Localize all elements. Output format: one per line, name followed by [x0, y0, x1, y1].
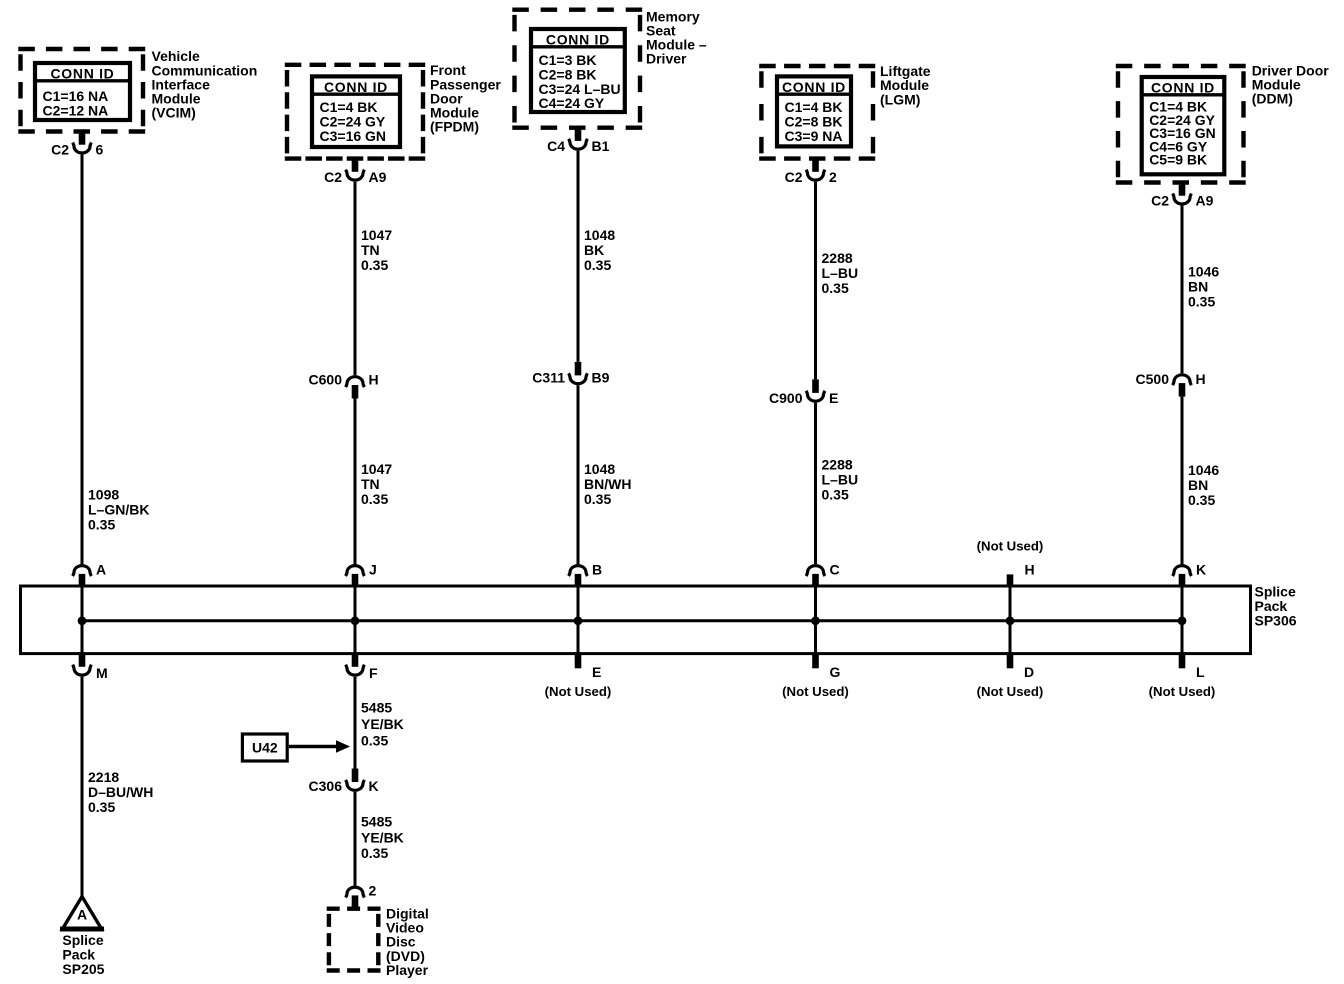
svg-text:C3=9 NA: C3=9 NA	[785, 128, 843, 144]
splice pack SP306: outline box	[21, 586, 1251, 654]
SP306 terminal J: socket arc	[346, 566, 365, 576]
SP306 terminal F: stub	[352, 653, 359, 667]
wire 2288 L-BU from LGM C2-2 to C900	[814, 182, 817, 380]
in-line connector C900 pin E: male terminal	[812, 379, 819, 393]
svg-text:C2=12 NA: C2=12 NA	[43, 102, 109, 118]
SP306 terminal G (not used): stub	[812, 653, 819, 669]
connector C2 pin A9: labels	[1151, 193, 1214, 209]
wire label 1098 L-GN/BK 0.35	[88, 487, 149, 533]
SP306 internal wire A/M	[81, 586, 84, 654]
DVD player pin 2: stub	[352, 895, 359, 910]
wire label 1046 BN 0.35 (lower)	[1188, 462, 1219, 508]
in-line connector C900 pin E: socket arc	[806, 391, 825, 401]
svg-text:0.35: 0.35	[584, 257, 611, 273]
module VCIM: connector size rows	[43, 88, 109, 119]
connector C4 pin B1: terminal stub	[575, 128, 582, 141]
connector C2 pin 2: terminal stub	[812, 159, 819, 172]
SP306 terminal M: socket arc	[73, 665, 92, 675]
wire 5485 YE/BK from C306 to DVD player pin 2	[354, 792, 357, 886]
connector C4 pin B1: socket arc	[569, 139, 588, 149]
svg-text:0.35: 0.35	[584, 491, 611, 507]
svg-text:1047: 1047	[361, 227, 392, 243]
SP306 bus junction at C/G	[811, 616, 820, 625]
wire 2218 D-BU/WH from SP306 terminal M to splice pack SP205	[81, 677, 84, 897]
svg-text:D: D	[1024, 664, 1034, 680]
SP306 terminal C: socket arc	[806, 566, 825, 576]
connector C2 pin 2: labels	[785, 169, 837, 185]
SP306 terminal J: stub	[352, 574, 359, 587]
SP306 bus junction at J/F	[351, 616, 360, 625]
svg-text:CONN ID: CONN ID	[546, 32, 610, 48]
wire label 1048 BK 0.35	[584, 227, 615, 273]
wire label 1048 BN/WH 0.35	[584, 461, 631, 507]
wire 1047 TN from C600 to SP306 terminal J	[354, 399, 357, 565]
in-line connector C600 pin H: labels	[309, 371, 379, 387]
svg-text:5485: 5485	[361, 814, 392, 830]
svg-text:H: H	[1025, 562, 1035, 578]
SP306 bus junction at B/E	[574, 616, 583, 625]
svg-text:0.35: 0.35	[361, 845, 388, 861]
svg-text:E: E	[592, 664, 601, 680]
svg-text:J: J	[369, 562, 377, 578]
in-line connector C311 pin B9: male terminal	[575, 362, 582, 376]
svg-text:Player: Player	[386, 962, 429, 978]
svg-text:Driver: Driver	[646, 51, 687, 67]
svg-text:(Not Used): (Not Used)	[782, 684, 849, 699]
SP306 internal wire H/D	[1009, 586, 1012, 654]
SP306 bus junction at A/M	[78, 616, 87, 625]
in-line connector C500 pin H: male terminal	[1179, 383, 1186, 397]
module FPDM: connector size rows	[320, 99, 387, 144]
in-line connector C311 pin B9: labels	[532, 370, 609, 386]
svg-text:CONN ID: CONN ID	[782, 79, 846, 95]
svg-text:(Not Used): (Not Used)	[977, 684, 1044, 699]
svg-text:C4=24 GY: C4=24 GY	[539, 95, 605, 111]
module VCIM: dashed outline	[18, 49, 145, 132]
svg-text:(Not Used): (Not Used)	[545, 684, 612, 699]
wire label 2288 L-BU 0.35 (upper)	[822, 250, 859, 296]
SP306 terminal C: stub	[812, 574, 819, 587]
svg-text:1047: 1047	[361, 461, 392, 477]
svg-text:BK: BK	[584, 242, 604, 258]
svg-text:0.35: 0.35	[361, 491, 388, 507]
connector C2 pin 2: socket arc	[806, 170, 825, 180]
svg-text:M: M	[96, 665, 108, 681]
svg-text:C311: C311	[532, 370, 565, 386]
connector C2 pin A9: terminal stub	[1179, 183, 1186, 196]
svg-text:1046: 1046	[1188, 264, 1219, 280]
callout U42 box	[242, 734, 287, 761]
module LGM: connector size rows	[785, 99, 843, 144]
svg-text:L: L	[1196, 664, 1205, 680]
wire 5485 YE/BK from SP306 terminal F to C306	[354, 677, 357, 769]
module DDM: CONN ID box	[1142, 77, 1225, 174]
svg-text:H: H	[369, 371, 379, 387]
svg-text:YE/BK: YE/BK	[361, 716, 404, 732]
connector C2 pin 6: socket arc	[73, 143, 92, 153]
connector C2 pin A9: labels	[324, 169, 387, 185]
SP306 terminal F: socket arc	[346, 665, 365, 675]
svg-text:A9: A9	[1196, 193, 1214, 209]
svg-text:D–BU/WH: D–BU/WH	[88, 784, 153, 800]
svg-text:B9: B9	[592, 370, 610, 386]
svg-text:(VCIM): (VCIM)	[152, 105, 196, 121]
SP306 terminal A: socket arc	[73, 566, 92, 576]
svg-text:BN: BN	[1188, 477, 1208, 493]
module DDM: name label	[1252, 63, 1330, 107]
svg-text:2: 2	[369, 883, 377, 899]
SP306 bus junction at K/L	[1178, 616, 1187, 625]
svg-text:5485: 5485	[361, 700, 392, 716]
svg-text:C: C	[830, 562, 840, 578]
wire label 1047 TN 0.35 (lower)	[361, 461, 392, 507]
module FPDM: name label	[430, 62, 501, 134]
svg-text:A: A	[96, 562, 106, 578]
svg-text:A: A	[77, 907, 87, 923]
svg-text:(Not Used): (Not Used)	[977, 539, 1044, 554]
svg-text:6: 6	[96, 142, 104, 158]
SP306 terminal L (not used): stub	[1179, 653, 1186, 669]
svg-text:F: F	[369, 665, 378, 681]
svg-text:K: K	[369, 778, 379, 794]
svg-text:2: 2	[829, 169, 837, 185]
splice pack SP306: internal bus	[82, 619, 1182, 622]
svg-text:C2: C2	[324, 169, 342, 185]
svg-text:C2: C2	[785, 169, 803, 185]
in-line connector C306 pin K: labels	[309, 778, 379, 794]
svg-text:CONN ID: CONN ID	[1151, 80, 1215, 96]
module VCIM: CONN ID box	[35, 63, 130, 120]
connector C2 pin A9: terminal stub	[352, 159, 359, 172]
wire label 2288 L-BU 0.35 (lower)	[822, 456, 859, 502]
Digital Video Disc (DVD) Player: dashed outline	[327, 909, 381, 971]
module MSM: connector size rows	[539, 52, 621, 111]
svg-text:C306: C306	[309, 778, 343, 794]
svg-text:1098: 1098	[88, 487, 119, 503]
wire label 5485 YE/BK 0.35 (lower)	[361, 814, 404, 862]
connector C4 pin B1: labels	[547, 138, 610, 154]
SP306 terminal B: socket arc	[569, 566, 588, 576]
in-line connector C306 pin K: socket arc	[346, 780, 365, 790]
callout U42 arrow to wire 5485	[289, 740, 350, 753]
svg-text:C500: C500	[1136, 371, 1170, 387]
svg-text:0.35: 0.35	[822, 280, 849, 296]
wire 1048 BN/WH from C311 to SP306 terminal B	[577, 385, 580, 564]
svg-text:U42: U42	[252, 740, 278, 756]
SP306 terminal D (not used): stub	[1007, 653, 1014, 669]
svg-text:(FPDM): (FPDM)	[430, 119, 479, 135]
splice pack SP205: triangle symbol A	[60, 897, 104, 930]
in-line connector C600 pin H: socket arc	[346, 377, 365, 387]
svg-text:C600: C600	[309, 371, 343, 387]
splice pack SP306: name label	[1255, 583, 1297, 628]
SP306 internal wire J/F	[354, 586, 357, 654]
svg-text:2288: 2288	[822, 250, 853, 266]
in-line connector C311 pin B9: socket arc	[569, 373, 588, 383]
svg-text:2288: 2288	[822, 456, 853, 472]
svg-text:TN: TN	[361, 242, 380, 258]
SP306 terminal K: stub	[1179, 574, 1186, 587]
svg-text:YE/BK: YE/BK	[361, 829, 404, 845]
svg-text:BN: BN	[1188, 279, 1208, 295]
module LGM: CONN ID box	[777, 76, 851, 146]
wire 1048 BK from MSM C4-B1 to C311	[577, 151, 580, 362]
wire label 2218 D-BU/WH 0.35	[88, 769, 153, 815]
svg-text:1046: 1046	[1188, 462, 1219, 478]
svg-text:C4: C4	[547, 138, 565, 154]
module VCIM: name label	[152, 48, 258, 120]
svg-text:G: G	[830, 664, 841, 680]
connector C2 pin 6: terminal stub	[79, 132, 86, 145]
wire label 1047 TN 0.35 (upper)	[361, 227, 392, 273]
svg-text:2218: 2218	[88, 769, 119, 785]
in-line connector C900 pin E: labels	[769, 390, 838, 406]
svg-text:SP205: SP205	[62, 961, 104, 977]
SP306 terminal B: stub	[575, 574, 582, 587]
svg-text:H: H	[1196, 371, 1206, 387]
svg-text:0.35: 0.35	[88, 517, 115, 533]
svg-text:BN/WH: BN/WH	[584, 476, 631, 492]
connector C2 pin A9: socket arc	[1173, 194, 1192, 204]
DVD player pin 2: socket arc	[346, 887, 365, 897]
svg-text:E: E	[829, 390, 838, 406]
in-line connector C500 pin H: socket arc	[1173, 375, 1192, 385]
svg-text:L–BU: L–BU	[822, 265, 859, 281]
svg-text:C2: C2	[51, 142, 69, 158]
wire label 5485 YE/BK 0.35 (upper)	[361, 700, 404, 749]
svg-text:B: B	[592, 562, 602, 578]
svg-text:0.35: 0.35	[361, 733, 388, 749]
svg-text:(Not Used): (Not Used)	[1149, 684, 1216, 699]
module LGM: dashed outline	[759, 66, 875, 159]
SP306 terminal E (not used): stub	[575, 653, 582, 669]
splice pack SP205: name label	[62, 932, 104, 977]
Digital Video Disc (DVD) Player: name label	[386, 905, 429, 978]
SP306 internal wire C/G	[814, 586, 817, 654]
module MSM: name label	[646, 8, 707, 66]
svg-text:CONN ID: CONN ID	[50, 66, 114, 82]
module DDM: connector size rows	[1149, 99, 1216, 168]
svg-text:(LGM): (LGM)	[880, 91, 920, 107]
svg-text:SP306: SP306	[1255, 612, 1297, 628]
svg-text:0.35: 0.35	[1188, 492, 1215, 508]
module LGM: name label	[880, 63, 931, 107]
wire 1047 TN from FPDM C2-A9 to C600	[354, 182, 357, 375]
module FPDM: CONN ID box	[312, 76, 400, 147]
svg-text:1048: 1048	[584, 227, 615, 243]
svg-text:C5=9 BK: C5=9 BK	[1149, 152, 1207, 168]
svg-text:K: K	[1196, 562, 1206, 578]
SP306 bus junction at H/D	[1006, 616, 1015, 625]
SP306 terminal K: socket arc	[1173, 566, 1192, 576]
module MSM: dashed outline	[512, 10, 642, 128]
wire 2288 L-BU from C900 to SP306 terminal C	[814, 403, 817, 564]
connector C2 pin A9: socket arc	[346, 170, 365, 180]
wire 1046 BN from DDM C2-A9 to C500	[1181, 206, 1184, 374]
svg-text:A9: A9	[369, 169, 387, 185]
connector C2 pin 6: labels	[51, 142, 103, 158]
svg-text:(DDM): (DDM)	[1252, 91, 1293, 107]
SP306 terminal M: stub	[79, 653, 86, 667]
svg-text:0.35: 0.35	[88, 799, 115, 815]
module MSM: CONN ID box	[531, 29, 625, 112]
svg-text:B1: B1	[592, 138, 610, 154]
module DDM: dashed outline	[1116, 66, 1246, 183]
wire 1046 BN from C500 to SP306 terminal K	[1181, 397, 1184, 564]
module FPDM: dashed outline	[285, 65, 425, 159]
svg-text:C900: C900	[769, 390, 803, 406]
svg-text:L–BU: L–BU	[822, 471, 859, 487]
svg-text:0.35: 0.35	[361, 257, 388, 273]
svg-text:0.35: 0.35	[822, 486, 849, 502]
svg-text:C3=16 GN: C3=16 GN	[320, 128, 387, 144]
SP306 internal wire K/L	[1181, 586, 1184, 654]
svg-text:C2: C2	[1151, 193, 1169, 209]
wire label 1046 BN 0.35 (upper)	[1188, 264, 1219, 310]
wire 1098 L-GN/BK from VCIM C2-6 to SP306 terminal A	[81, 155, 84, 564]
SP306 internal wire B/E	[577, 586, 580, 654]
in-line connector C306 pin K: male terminal	[352, 769, 359, 783]
svg-text:L–GN/BK: L–GN/BK	[88, 502, 149, 518]
svg-text:1048: 1048	[584, 461, 615, 477]
svg-text:TN: TN	[361, 476, 380, 492]
in-line connector C500 pin H: labels	[1136, 371, 1206, 387]
svg-text:0.35: 0.35	[1188, 294, 1215, 310]
SP306 terminal H (not used): stub	[1007, 574, 1014, 587]
svg-text:CONN ID: CONN ID	[324, 79, 388, 95]
SP306 terminal A: stub	[79, 574, 86, 587]
in-line connector C600 pin H: male terminal	[352, 385, 359, 399]
